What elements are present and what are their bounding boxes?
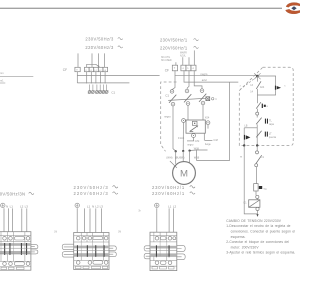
svg-text:A04: A04 (260, 86, 265, 89)
wire main chain lower (256, 124, 258, 145)
svg-text:C: C (215, 98, 217, 101)
supply label 220V/60Hz/3 (85, 45, 122, 50)
bottom-middle header 230V/50Hz/3 (74, 185, 118, 190)
svg-text:CF: CF (63, 68, 67, 72)
left-edge leader label 2 (0, 79, 5, 83)
bottom-left header 400V/50Hz/3N (0, 191, 34, 196)
svg-text:mn: mn (0, 72, 4, 75)
bottom-middle feed wires (77, 208, 101, 232)
wire relay out with C/M markers (187, 133, 218, 146)
bottom-middle terminal bridge block (74, 233, 109, 270)
bottom-right feed wires (157, 208, 174, 232)
svg-text:220V/60Hz/1: 220V/60Hz/1 (160, 45, 188, 50)
svg-text:MARR: MARR (180, 52, 187, 55)
svg-text:azul: azul (202, 78, 207, 82)
branch return wire (257, 90, 275, 95)
svg-text:N: N (92, 204, 94, 208)
contactor coil link (box with X) (206, 97, 217, 101)
svg-text:220V/60Hz/3: 220V/60Hz/3 (74, 191, 109, 196)
wire drop L3 (104, 72, 106, 84)
left-edge leader label 1 (0, 72, 33, 76)
svg-text:L1: L1 (168, 204, 172, 208)
svg-text:3h: 3h (138, 211, 141, 213)
svg-text:L2: L2 (173, 204, 177, 208)
microswitch actuator (black arrow) (275, 86, 281, 90)
bottom-right spring tab 2 (177, 254, 185, 260)
svg-text:M: M (180, 168, 188, 179)
bottom-right terminal labels PE L1 L2 (155, 203, 177, 208)
bottom-middle terminal labels PE L1 N L2 L3 (75, 203, 103, 208)
svg-text:C1: C1 (261, 155, 265, 159)
wire drop n (86, 72, 88, 84)
supply label 220V/60Hz/1 (160, 45, 198, 50)
svg-text:L1: L1 (10, 204, 14, 208)
wire pole2 to relay (187, 105, 189, 120)
svg-text:CAMBIO DE TENSION 220V/230: CAMBIO DE TENSION 220V/230V (226, 219, 281, 223)
motor wire labels (166, 155, 199, 159)
svg-text:negro: negro (187, 144, 194, 147)
bottom-right left spring tab 2 (144, 254, 150, 259)
thermal protector T4 (254, 167, 267, 196)
contactor C1 main contacts (165, 89, 206, 106)
door switch LT puerta (256, 131, 276, 139)
svg-text:L2: L2 (192, 68, 195, 70)
wire L-in 2 (91, 53, 93, 67)
svg-text:conexiones. Conectar el pue: conexiones. Conectar el puente según el (231, 230, 296, 234)
part label near left block (54, 231, 57, 233)
wire bus line upper (to right box) (77, 75, 159, 77)
bottom-right header 230V/50Hz/1 (152, 185, 195, 190)
bottom-middle spring tab 2 (109, 252, 116, 257)
svg-text:L1: L1 (182, 68, 185, 70)
dashed link azul-to-node (240, 77, 256, 89)
LB microswitch (black arrow) (244, 128, 251, 146)
terminal block CF (1-phase) (165, 65, 196, 72)
svg-text:C1: C1 (243, 201, 247, 205)
svg-text:L2: L2 (20, 204, 24, 208)
svg-text:F1A5: F1A5 (178, 136, 185, 140)
svg-text:beige: beige (205, 143, 212, 146)
svg-text:x: x (284, 84, 286, 87)
wire drop L1 (90, 72, 92, 84)
svg-text:AZUL: AZUL (180, 54, 187, 57)
return wire m (240, 146, 258, 214)
contact 13-14 A04 (250, 76, 265, 103)
note wire colors (180, 52, 187, 58)
wire L-in b (188, 57, 190, 65)
bottom-right left spring tab 1 (144, 246, 150, 251)
svg-text:3M: 3M (118, 232, 121, 234)
wire L-in 4 (104, 53, 106, 67)
coil terminal upper (256, 195, 259, 198)
svg-text:x: x (240, 84, 242, 87)
svg-text:(WH): (WH) (166, 156, 172, 160)
cable C1 wire-end ferrules (88, 85, 108, 94)
wire T drop (76, 72, 78, 83)
svg-text:NO-UTIL: NO-UTIL (161, 57, 171, 59)
node dot 3 (188, 149, 190, 151)
terminal circle (256, 112, 259, 115)
motor M1 (173, 162, 196, 185)
svg-text:B: B (267, 106, 269, 108)
relay aux terminal left (182, 119, 186, 151)
wire L-in c (193, 50, 195, 65)
svg-text:230V/50Hz/3: 230V/50Hz/3 (74, 185, 109, 190)
node dot left boundary (243, 144, 245, 146)
svg-text:tapa: tapa (269, 123, 274, 126)
bottom-middle header 220V/60Hz/3 (74, 191, 118, 196)
svg-text:T: T (174, 67, 176, 70)
wire negro (to control box node) (175, 70, 257, 76)
logo S (top-right, cut at edge) (286, 3, 301, 14)
svg-text:C1: C1 (165, 93, 169, 97)
bottom-left spring tab 1 (31, 245, 38, 249)
wire drop L2 (95, 72, 97, 84)
contactor coil C1 (243, 199, 260, 208)
wire to contactor pole 1 (172, 76, 175, 90)
svg-text:T4: T4 (263, 187, 267, 191)
svg-text:C/M: C/M (195, 140, 199, 143)
svg-text:C1: C1 (111, 91, 115, 95)
wire L-in a (182, 57, 184, 65)
svg-text:m: m (240, 154, 243, 158)
svg-text:L1: L1 (87, 204, 91, 208)
boundary marker x (right edge) (284, 84, 286, 87)
svg-text:NO-USED: NO-USED (161, 60, 172, 62)
svg-text:400V/50Hz/3N: 400V/50Hz/3N (0, 191, 25, 196)
wire L-in 1 (77, 53, 79, 67)
bottom-left terminal labels PE N L1 L2 L3 (1, 203, 29, 208)
svg-text:negro: negro (164, 115, 171, 119)
bottom-left feed wires (4, 208, 27, 232)
svg-text:C/M: C/M (213, 139, 217, 142)
wire to contactor pole 2 (187, 70, 189, 89)
terminal block CF (3-phase) (63, 67, 108, 72)
coil terminal lower (256, 207, 259, 217)
supply label 230V/50Hz/1 (block CF right) (160, 38, 198, 43)
svg-text:L3: L3 (100, 204, 104, 208)
part label 3h (138, 211, 141, 213)
svg-text:230V/50Hz/1: 230V/50Hz/1 (160, 38, 188, 43)
svg-text:230V/50Hz/1: 230V/50Hz/1 (152, 185, 185, 190)
motor feed wires (170, 151, 190, 168)
wire azul return route (197, 82, 230, 160)
svg-text:X04: X04 (205, 117, 210, 120)
bottom-middle spring tab 1 (109, 246, 116, 251)
node A (supply node with crimp X) (254, 73, 260, 79)
dashed enclosure (control panel) (239, 67, 293, 145)
svg-text:N: N (6, 204, 8, 208)
svg-text:m1: m1 (0, 79, 4, 83)
svg-text:n: n (187, 67, 189, 70)
svg-text:220V/60Hz/1: 220V/60Hz/1 (152, 191, 185, 196)
lid switch TL tapa (256, 115, 274, 126)
cable W08 bracket (190, 147, 208, 150)
svg-text:220V/60Hz/3: 220V/60Hz/3 (85, 45, 114, 50)
wire azul (routing right) (184, 70, 238, 82)
branch wire to door microswitch (257, 76, 275, 86)
label negro on pole1 wire (164, 115, 171, 119)
wire pole1 to dot1 (173, 106, 176, 151)
svg-text:motor: 200V/230V: motor: 200V/230V (231, 245, 260, 249)
svg-text:2-Conectar el bloque de co: 2-Conectar el bloque de conexiones del (226, 240, 289, 244)
wire L-in 3 (97, 53, 99, 67)
svg-text:esquema.: esquema. (231, 235, 246, 239)
wire bus line lower (77, 82, 129, 84)
bottom-right header 220V/60Hz/1 (152, 191, 195, 196)
header rule (0, 7, 282, 9)
jumper link N-L2 with arrow (87, 64, 100, 67)
wire N-in (175, 62, 177, 65)
bottom-middle left spring tab 2 (62, 252, 73, 257)
svg-text:14: 14 (250, 91, 253, 94)
bottom-middle left spring tab 1 (62, 244, 73, 249)
svg-text:230V/50Hz/3: 230V/50Hz/3 (85, 37, 114, 42)
aux contact C1 (255, 146, 265, 167)
svg-text:3-Ajustar el relé térmico s: 3-Ajustar el relé térmico según el esque… (226, 251, 295, 255)
bottom-right terminal bridge block (150, 232, 177, 270)
node dot 1 (175, 150, 177, 152)
svg-text:1M: 1M (54, 231, 57, 233)
label C1 (cable) (111, 91, 115, 95)
bottom-left terminal bridge block (0, 232, 31, 271)
svg-text:L3: L3 (25, 204, 29, 208)
instructions text block (226, 219, 295, 255)
wire pole3 to relay (202, 105, 204, 120)
node dot 2 (182, 150, 184, 152)
svg-text:puerta: puerta (269, 136, 277, 139)
boundary marker x (azul entry) (240, 84, 242, 87)
thermal overload relay F1 (178, 120, 205, 140)
note NO UTIL / NO USED (161, 57, 172, 62)
part label near middle block (118, 232, 121, 234)
supply label 230V/50Hz/3 (block CF left) (85, 37, 122, 42)
wire drop L2b (100, 72, 102, 84)
svg-text:LB: LB (244, 125, 247, 128)
relay aux terminal right / X04 (205, 117, 210, 129)
svg-text:L2: L2 (95, 204, 99, 208)
wire to contactor pole 3 (194, 70, 202, 89)
plug contact B (256, 102, 268, 112)
svg-text:1-Desconectar el neutro de: 1-Desconectar el neutro de la regleta de (226, 224, 290, 228)
bottom-left spring tab 2 (31, 250, 38, 254)
svg-text:W16: W16 (194, 155, 200, 159)
dashed enclosure (motor compartment) (161, 82, 177, 151)
svg-text:negro: negro (201, 72, 208, 76)
bottom-right spring tab 1 (177, 246, 185, 252)
junction to LB branch (244, 125, 257, 128)
svg-text:13: 13 (250, 84, 253, 87)
svg-text:CF: CF (165, 68, 169, 72)
node dot right boundary (256, 144, 258, 146)
